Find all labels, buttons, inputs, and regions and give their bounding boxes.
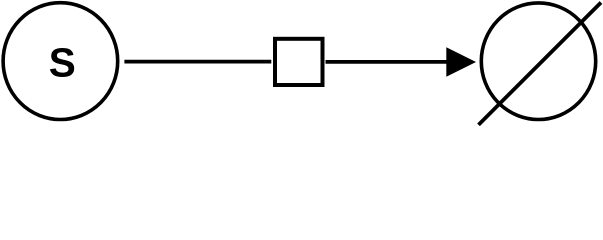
source place circle S bbox=[3, 3, 118, 120]
transition square bbox=[275, 39, 323, 85]
slash through sink bbox=[479, 3, 602, 125]
svg-text:S: S bbox=[49, 40, 76, 86]
wire bbox=[124, 60, 271, 64]
wire bbox=[326, 60, 448, 64]
arrowhead bbox=[446, 47, 476, 76]
sink place circle bbox=[481, 3, 595, 120]
